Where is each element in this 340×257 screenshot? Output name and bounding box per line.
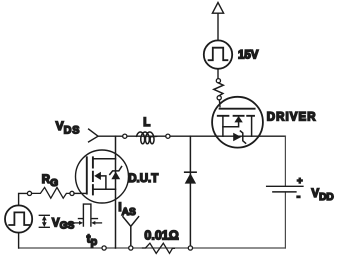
node B (inductor output) (166, 134, 170, 138)
DUT body arrow (94, 172, 101, 180)
svg-text:VGS: VGS (52, 218, 75, 232)
node gate node (70, 191, 74, 195)
wire 15V to connector (217, 69, 219, 79)
battery VDD plates (267, 185, 303, 187)
wire connector to driver gate (218, 100, 221, 107)
driver channel segments (218, 115, 254, 117)
diode clamp D1 (185, 173, 196, 183)
svg-text:L: L (143, 117, 150, 129)
arrow IAS (123, 217, 139, 246)
arrow tp left (71, 222, 80, 224)
arrow tp right (95, 222, 102, 224)
driver body branch (223, 122, 239, 127)
driver source post (251, 116, 253, 136)
wire pulse gen top lead (19, 193, 28, 205)
wire right rail battery to bottom (284, 192, 286, 248)
pulse tp glyph (79, 204, 98, 226)
svg-text:+: + (297, 176, 303, 187)
resistor gate (vertical zigzag) (214, 83, 224, 96)
node bottom IAS (129, 246, 133, 250)
pulse generator circle (5, 205, 32, 232)
inductor L (136, 132, 156, 144)
driver drain post (222, 116, 224, 136)
node bottom left (102, 246, 106, 250)
driver body diode (233, 133, 241, 142)
svg-text:15V: 15V (238, 50, 259, 62)
driver body arrow (234, 116, 242, 123)
arrow VGS double (39, 215, 49, 227)
resistor RG (32, 187, 70, 198)
DUT gate bar (86, 157, 88, 193)
svg-text:D.U.T: D.U.T (128, 173, 158, 185)
svg-text:0.01Ω: 0.01Ω (144, 228, 178, 242)
DUT drain stub (93, 158, 116, 160)
wire top rail horizontal VDS to right rail (98, 135, 286, 137)
pulse source 15V circle (204, 40, 232, 68)
node A (DUT drain node) (123, 134, 127, 138)
connector dot bottom (217, 96, 221, 100)
probe VDS (89, 129, 98, 142)
DUT body stub (101, 176, 106, 189)
svg-text:-: - (297, 191, 301, 203)
DUT source stub (93, 188, 116, 190)
svg-text:DRIVER: DRIVER (267, 112, 317, 124)
resistor shunt 0.01ohm (143, 243, 175, 253)
wire DUT drain-source vertical (115, 136, 117, 248)
node gate input (27, 191, 31, 195)
wire gate node to DUT gate (74, 192, 86, 194)
wire bottom rail (19, 247, 286, 249)
mosfet DUT circle Q1 (76, 150, 129, 203)
supply arrow (212, 3, 223, 41)
wire clamp diode branch vertical (189, 136, 191, 248)
wire right rail down to battery (284, 136, 286, 186)
driver gate bar (220, 108, 255, 110)
connector dot top (216, 79, 220, 83)
DUT body diode (111, 172, 120, 180)
wire pulse gen bottom lead (18, 233, 20, 248)
op: DRIVER mosfet circle U2 (212, 97, 263, 148)
DUT channel segments (92, 157, 94, 194)
node shunt right (188, 246, 192, 250)
